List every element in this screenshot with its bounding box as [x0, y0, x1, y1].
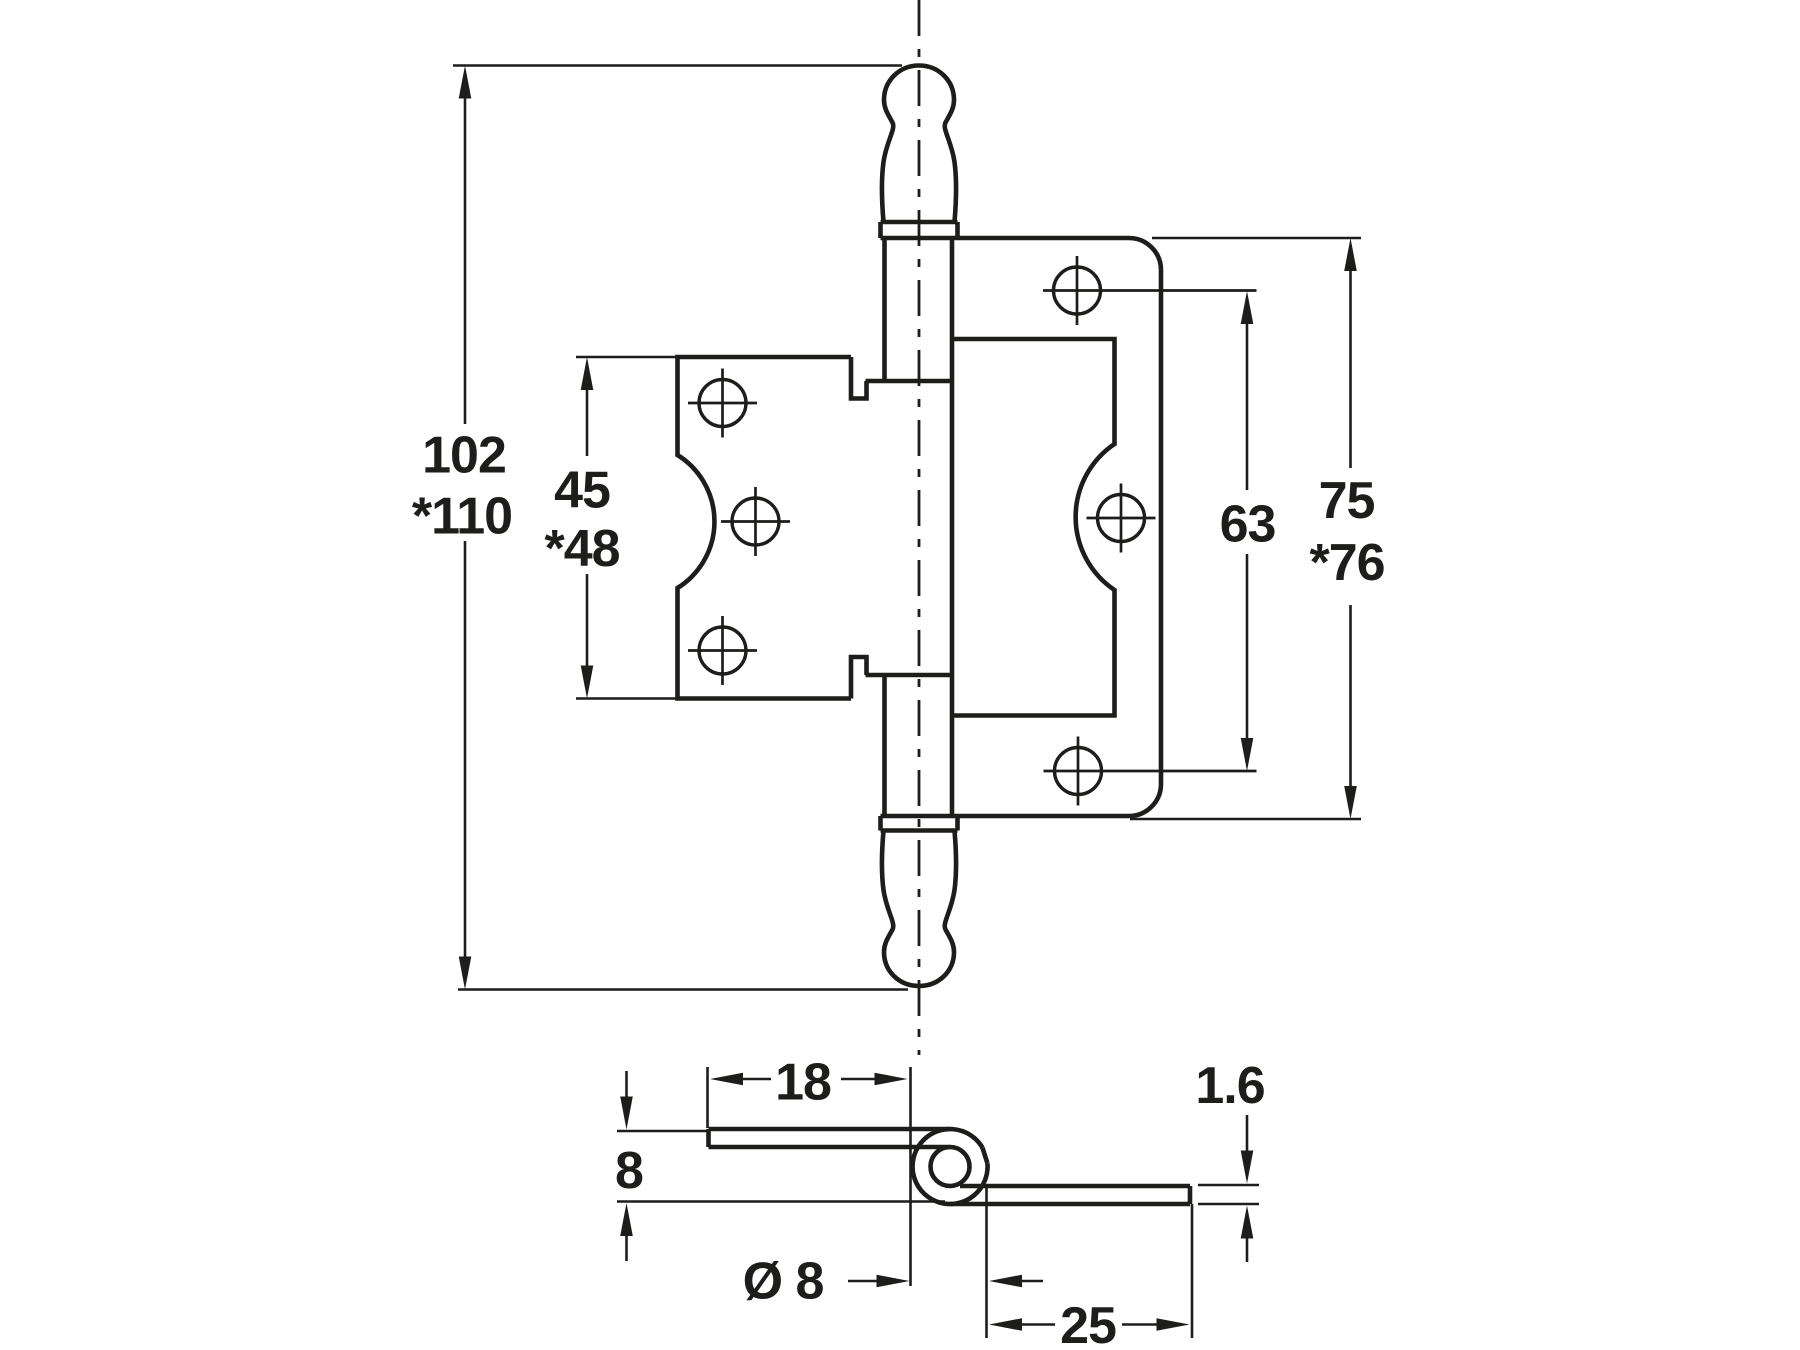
- svg-text:18: 18: [775, 1054, 831, 1112]
- svg-text:*76: *76: [1309, 534, 1384, 592]
- svg-text:45: 45: [554, 462, 610, 520]
- svg-text:25: 25: [1060, 1297, 1116, 1350]
- svg-text:102: 102: [422, 427, 506, 485]
- svg-text:8: 8: [615, 1142, 643, 1200]
- svg-text:*110: *110: [412, 488, 512, 546]
- svg-text:Ø 8: Ø 8: [743, 1253, 824, 1311]
- svg-text:63: 63: [1220, 496, 1276, 554]
- svg-text:1.6: 1.6: [1195, 1057, 1264, 1115]
- svg-text:75: 75: [1319, 472, 1375, 530]
- svg-text:*48: *48: [544, 520, 619, 578]
